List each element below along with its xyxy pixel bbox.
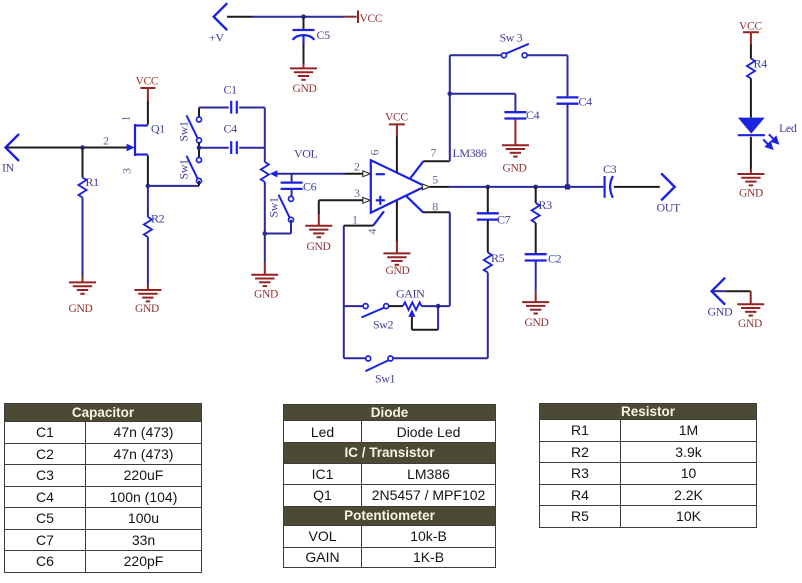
svg-text:Led: Led: [779, 121, 797, 135]
svg-text:GND: GND: [307, 241, 331, 253]
svg-text:VCC: VCC: [136, 76, 159, 88]
svg-text:GND: GND: [293, 83, 317, 95]
svg-text:Sw1: Sw1: [375, 372, 396, 386]
svg-text:GND: GND: [254, 289, 278, 301]
svg-text:C4: C4: [526, 108, 540, 122]
svg-text:Sw1: Sw1: [177, 121, 191, 142]
svg-text:2: 2: [103, 134, 109, 148]
svg-text:GND: GND: [738, 318, 762, 330]
svg-text:R4: R4: [754, 57, 768, 71]
svg-text:C4: C4: [579, 95, 593, 109]
svg-text:VCC: VCC: [739, 21, 762, 33]
svg-text:IN: IN: [2, 161, 15, 175]
svg-text:VOL: VOL: [294, 147, 318, 161]
svg-text:R2: R2: [151, 212, 165, 226]
svg-text:3: 3: [120, 168, 134, 174]
svg-text:C2: C2: [548, 252, 562, 266]
svg-text:C7: C7: [497, 213, 511, 227]
svg-text:C4: C4: [224, 122, 238, 136]
svg-text:Q1: Q1: [151, 122, 165, 136]
svg-text:R5: R5: [491, 251, 505, 265]
svg-text:VCC: VCC: [360, 13, 383, 25]
svg-text:GND: GND: [525, 317, 549, 329]
svg-text:Sw 3: Sw 3: [500, 31, 523, 45]
svg-text:C5: C5: [317, 28, 331, 42]
svg-text:GND: GND: [135, 303, 159, 315]
svg-text:GND: GND: [386, 265, 410, 277]
svg-text:GND: GND: [739, 188, 763, 200]
svg-text:LM386: LM386: [453, 146, 487, 160]
svg-text:C6: C6: [303, 180, 317, 194]
svg-text:Sw1: Sw1: [267, 197, 281, 218]
svg-text:C3: C3: [603, 162, 617, 176]
svg-text:Sw2: Sw2: [373, 318, 394, 332]
svg-text:C1: C1: [224, 83, 238, 97]
svg-text:GND: GND: [69, 303, 93, 315]
svg-text:1: 1: [119, 116, 133, 122]
svg-text:3: 3: [354, 186, 360, 200]
svg-text:5: 5: [432, 173, 438, 187]
svg-text:OUT: OUT: [657, 201, 682, 215]
svg-text:GND: GND: [708, 305, 734, 319]
svg-text:GAIN: GAIN: [396, 287, 425, 301]
svg-text:R1: R1: [86, 175, 100, 189]
svg-text:6: 6: [368, 150, 382, 156]
svg-text:1: 1: [352, 213, 358, 227]
svg-text:7: 7: [431, 146, 437, 160]
svg-text:R3: R3: [539, 198, 553, 212]
svg-text:Sw1: Sw1: [177, 159, 191, 180]
svg-text:+V: +V: [209, 31, 224, 45]
svg-text:VCC: VCC: [385, 112, 408, 124]
svg-text:8: 8: [432, 200, 438, 214]
svg-text:2: 2: [354, 160, 360, 174]
svg-text:GND: GND: [503, 163, 527, 175]
svg-text:4: 4: [365, 229, 379, 235]
